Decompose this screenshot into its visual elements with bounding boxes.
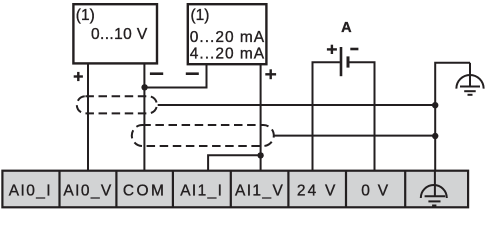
shield ellipse around AI0 pair: [77, 96, 157, 113]
junction dot shield2/earth: [432, 133, 438, 139]
current source U2 box (0...20 mA / 4...20 mA): [188, 4, 267, 64]
voltage source U1 box (0...10 V): [73, 4, 157, 63]
junction dot shield1/earth: [432, 102, 438, 108]
wire: AI1_I branch to AI1_V wire: [208, 155, 261, 170]
polarity label + of U2: [265, 69, 276, 79]
polarity label − of U1: [150, 72, 163, 75]
svg-text:AI0_V: AI0_V: [63, 183, 112, 200]
polarity label + of battery: [327, 45, 337, 54]
wire: U1 − terminal to COM: [143, 63, 145, 170]
wire: battery + to 24 V: [313, 62, 340, 171]
wire: U2 + terminal to AI1_V: [260, 64, 262, 171]
wire: battery − to 0 V: [349, 62, 375, 171]
wire: shield 2 drain to earth wire: [275, 135, 436, 137]
svg-text:0 V: 0 V: [361, 183, 390, 200]
svg-text:A: A: [341, 20, 352, 36]
svg-text:AI0_I: AI0_I: [9, 183, 52, 200]
svg-text:AI1_I: AI1_I: [180, 183, 223, 200]
svg-text:(1): (1): [76, 7, 95, 24]
svg-text:24 V: 24 V: [297, 183, 338, 200]
battery A plates: [341, 47, 348, 76]
wire: earth bus down to earth terminal: [435, 63, 470, 171]
shield ellipse around AI1 pair: [132, 125, 274, 146]
polarity label + of U1: [74, 72, 83, 81]
polarity label − of U2: [186, 72, 199, 75]
svg-text:0...10 V: 0...10 V: [91, 26, 148, 43]
svg-text:COM: COM: [123, 183, 166, 200]
wire: U1 + terminal to AI0_V: [87, 63, 89, 170]
wire: shield 1 drain to earth wire: [158, 104, 436, 106]
earth terminal symbol: [421, 172, 447, 206]
svg-text:4...20 mA: 4...20 mA: [190, 46, 265, 63]
terminal block row: [2, 171, 468, 208]
svg-text:AI1_V: AI1_V: [235, 183, 284, 200]
svg-text:0...20 mA: 0...20 mA: [190, 29, 265, 46]
wire: U2 − terminal to junction on COM wire: [144, 64, 206, 87]
junction dot on COM wire: [141, 84, 147, 90]
external earth (functional ground) symbol: [456, 63, 483, 95]
polarity label − of battery: [350, 48, 358, 51]
svg-text:(1): (1): [191, 7, 210, 24]
junction dot on AI1_V wire: [257, 152, 263, 158]
